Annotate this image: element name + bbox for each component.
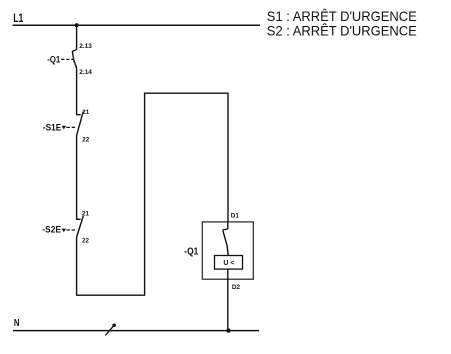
wire: vertical drop from L1 to Q1 contact: [76, 25, 78, 49]
svg-text:22: 22: [82, 136, 90, 143]
svg-text:2.14: 2.14: [79, 69, 92, 76]
node: junction on N rail: [226, 328, 230, 332]
svg-text:22: 22: [82, 238, 90, 245]
svg-text:-S2E: -S2E: [42, 225, 61, 236]
link dashes Q1: [61, 58, 74, 60]
svg-text:U <: U <: [223, 260, 234, 267]
link dashes S1E: [66, 126, 75, 128]
contact -Q1 auxiliary NO (moving arm): [72, 50, 76, 69]
contact -S1E NC (emergency stop): [76, 111, 83, 135]
svg-text:2.13: 2.13: [79, 43, 92, 50]
svg-text:D2: D2: [232, 284, 241, 291]
svg-text:D1: D1: [231, 212, 240, 219]
wire: coil to N rail: [227, 269, 229, 331]
svg-text:S2 : ARRÊT D'URGENCE: S2 : ARRÊT D'URGENCE: [267, 23, 417, 39]
actuator mushroom head S1E: [62, 126, 67, 130]
svg-text:-S1E: -S1E: [43, 123, 61, 134]
svg-text:21: 21: [82, 211, 90, 218]
wire: N rail: [13, 330, 259, 332]
breaker internal contact: [223, 222, 229, 255]
svg-text:N: N: [14, 317, 20, 329]
svg-text:L1: L1: [13, 13, 24, 25]
node: N tap connection: [105, 324, 116, 336]
link dashes S2E: [66, 229, 77, 231]
wire: vertical between Q1 contact and S1E: [76, 68, 78, 115]
breaker -Q1 outline box: [202, 222, 253, 279]
svg-text:S1 : ARRÊT D'URGENCE: S1 : ARRÊT D'URGENCE: [267, 8, 417, 24]
svg-text:-Q1: -Q1: [184, 246, 198, 257]
svg-text:21: 21: [82, 109, 90, 116]
actuator mushroom head S2E: [62, 229, 67, 233]
node: junction on L1 rail: [75, 23, 79, 27]
contact -S2E NC (emergency stop): [76, 216, 83, 237]
svg-text:-Q1: -Q1: [47, 54, 61, 65]
wire: U route from S2E down, right, up and over to Q1 coil: [77, 93, 228, 295]
wire: vertical between S1E and S2E: [76, 135, 78, 219]
wire: L1 rail: [13, 24, 261, 26]
undervoltage release U< box: [215, 256, 243, 270]
